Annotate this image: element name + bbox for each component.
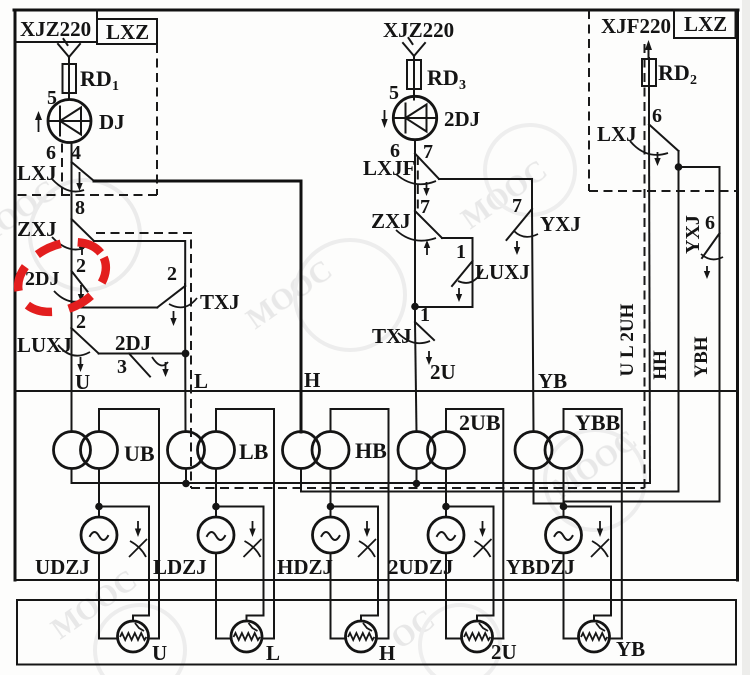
lamp L <box>231 621 280 665</box>
fuse RD1 <box>63 64 120 100</box>
wire HDZJ coil feed <box>330 469 332 518</box>
svg-text:LB: LB <box>239 439 269 464</box>
wire LXJF to YXJ branch <box>439 179 532 209</box>
wire YBDZJ coil feed <box>563 469 565 518</box>
wire RD2 to LXJ pivot <box>648 86 650 124</box>
right unit dashed enclosure <box>589 10 738 191</box>
contact LXJ left <box>17 161 94 192</box>
transformer UB <box>54 432 155 469</box>
contact HDZJ check <box>358 521 376 557</box>
svg-text:2U: 2U <box>430 360 456 384</box>
wire left spine to U terminal <box>71 328 73 432</box>
wire outer border right <box>736 10 739 580</box>
node junction HDZJ <box>327 503 335 511</box>
svg-text:LXJF: LXJF <box>363 156 416 180</box>
svg-text:6: 6 <box>705 212 715 234</box>
wire HDZJ to lamp left <box>331 553 346 639</box>
wire LB primary return <box>185 469 187 484</box>
svg-text:7: 7 <box>420 196 430 218</box>
transformer LB <box>168 432 269 469</box>
node junction L wire <box>182 350 190 358</box>
node XJZ220 left terminal box <box>15 10 97 42</box>
wire common return bus U L 2UH <box>72 469 651 484</box>
power feed tap XJZ220 left <box>58 39 80 64</box>
transformer YBB <box>515 410 621 469</box>
wire middle spine LXJF to ZXJ <box>414 154 416 212</box>
relay 2UDZJ <box>388 517 464 579</box>
svg-text:5: 5 <box>389 82 399 104</box>
wire UDZJ to lamp left <box>99 553 118 639</box>
svg-text:TXJ: TXJ <box>200 290 240 314</box>
contact LUXJ left <box>17 328 99 372</box>
wire LDZJ coil feed <box>215 469 217 518</box>
svg-text:3: 3 <box>117 356 127 378</box>
node junction LDZJ <box>212 503 220 511</box>
svg-text:U: U <box>75 370 90 394</box>
lamp YB <box>579 621 646 661</box>
power feed arrow XJF220 <box>648 48 650 58</box>
svg-text:2U: 2U <box>491 640 517 664</box>
svg-text:2DJ: 2DJ <box>115 331 151 355</box>
wire YBDZJ contact branch <box>564 507 612 622</box>
svg-text:2UB: 2UB <box>459 410 501 435</box>
wire DJ pin4 to LXJ pivot <box>71 143 73 163</box>
relay UDZJ <box>35 517 117 579</box>
arrow down beside 2DJ <box>384 110 386 121</box>
contact UDZJ check <box>129 521 147 557</box>
svg-text:8: 8 <box>75 197 85 219</box>
svg-text:XJZ220: XJZ220 <box>20 17 91 41</box>
wire ZXJ to LUXJ branch <box>442 238 473 261</box>
contact YXJ right <box>682 215 723 279</box>
lamp H <box>346 621 396 665</box>
wire 2DJ-3 contact bridge <box>99 353 186 355</box>
contact ZXJ middle <box>371 209 442 255</box>
svg-text:2UDZJ: 2UDZJ <box>388 555 453 579</box>
contact LDZJ check <box>244 521 262 557</box>
node junction UDZJ <box>95 503 103 511</box>
wire LUXJ branch return <box>415 261 473 307</box>
node bus junction L <box>182 480 190 488</box>
dashed route along middle spine <box>417 156 419 209</box>
wire left spine LXJ to ZXJ <box>71 162 73 220</box>
relay HDZJ <box>277 517 349 579</box>
wire outer border left <box>14 10 17 580</box>
svg-text:RD: RD <box>658 60 690 85</box>
svg-text:YBB: YBB <box>575 410 621 435</box>
svg-text:HDZJ: HDZJ <box>277 555 333 579</box>
dashed route across transformer section <box>191 487 645 489</box>
wire YBDZJ to lamp left <box>564 553 579 639</box>
wire 2U lamp feed <box>415 322 417 432</box>
relay DJ <box>48 100 125 143</box>
svg-text:U: U <box>152 641 167 665</box>
svg-text:RD: RD <box>80 66 112 91</box>
wire 2UDZJ to lamp left <box>446 553 462 639</box>
wire LDZJ contact branch <box>216 507 264 622</box>
wire 2UB primary return <box>416 469 418 484</box>
svg-text:LXJ: LXJ <box>17 161 57 185</box>
wire HH return column <box>649 124 650 483</box>
svg-text:YBH: YBH <box>691 336 712 377</box>
node junction YBDZJ <box>560 503 568 511</box>
wire YBH return column <box>564 233 720 506</box>
arrow up beside DJ <box>38 117 40 132</box>
contact TXJ left <box>157 286 239 326</box>
contact 2UDZJ check <box>474 521 492 557</box>
wire 2UDZJ coil feed <box>445 469 447 518</box>
svg-text:RD: RD <box>427 65 459 90</box>
svg-text:1: 1 <box>112 79 119 94</box>
wire 2DJ to LXJF pivot <box>414 140 416 154</box>
svg-text:U L 2UH: U L 2UH <box>617 303 638 376</box>
wire UDZJ contact branch <box>99 507 149 622</box>
fuse RD3 <box>407 60 466 100</box>
svg-text:YXJ: YXJ <box>540 212 581 236</box>
power feed tap XJZ220 middle <box>403 38 425 60</box>
contact YXJ middle <box>507 209 581 255</box>
wire section divider lower <box>15 579 738 581</box>
wire TXJ to left spine <box>72 307 158 309</box>
wire UDZJ coil feed <box>98 469 100 518</box>
relay YBDZJ <box>506 517 582 579</box>
contact ZXJ left <box>17 217 94 255</box>
dashed route right column <box>644 44 646 488</box>
svg-text:6: 6 <box>652 105 662 127</box>
wire LXJ tip to junction <box>678 151 680 167</box>
relay 2DJ <box>393 96 480 139</box>
svg-text:2: 2 <box>167 263 177 285</box>
node LXZ right box <box>674 10 736 38</box>
svg-text:3: 3 <box>459 78 466 93</box>
wire HB secondary top loop <box>331 409 389 639</box>
svg-text:2: 2 <box>76 311 86 333</box>
wire YBB secondary top loop <box>564 409 622 639</box>
wire UB secondary top loop <box>99 409 159 639</box>
svg-text:H: H <box>379 641 395 665</box>
svg-text:YBDZJ: YBDZJ <box>506 555 575 579</box>
svg-text:HH: HH <box>650 350 671 380</box>
wire lamp YB right side <box>610 638 622 640</box>
svg-text:7: 7 <box>512 195 522 217</box>
wire outer border top <box>14 9 738 12</box>
svg-text:LDZJ: LDZJ <box>153 555 207 579</box>
contact 2DJ left <box>25 268 88 302</box>
svg-text:YB: YB <box>538 369 567 393</box>
svg-text:H: H <box>304 368 320 392</box>
svg-text:LUXJ: LUXJ <box>17 333 72 357</box>
wire LXJ to H column <box>94 180 301 183</box>
wire left spine ZXJ to 2DJ <box>71 220 73 271</box>
left unit dashed enclosure <box>15 44 157 195</box>
wire L lamp feed <box>184 284 187 432</box>
contact LUXJ middle <box>452 260 530 302</box>
svg-text:UDZJ: UDZJ <box>35 555 90 579</box>
wire left spine 2DJ to LUXJ <box>71 271 73 328</box>
node junction right <box>675 163 683 171</box>
svg-text:XJF220: XJF220 <box>601 14 671 38</box>
highlight circle around 2DJ contact <box>7 229 117 326</box>
wire HH return horizontal <box>301 469 679 492</box>
svg-text:L: L <box>266 641 280 665</box>
svg-text:7: 7 <box>423 141 433 163</box>
wire ZXJ to TXJ branch <box>94 241 185 286</box>
wire section divider upper <box>15 390 738 392</box>
svg-text:1: 1 <box>456 241 466 263</box>
contact 2DJ 3 <box>115 331 169 378</box>
svg-text:2DJ: 2DJ <box>25 268 59 290</box>
svg-text:1: 1 <box>420 304 430 326</box>
wire LDZJ to lamp left <box>216 553 231 639</box>
svg-text:ZXJ: ZXJ <box>371 209 411 233</box>
wire YBB primary return jog <box>534 469 564 504</box>
fuse RD2 <box>642 58 697 92</box>
svg-text:YB: YB <box>616 637 645 661</box>
wire lamp H right side <box>377 638 389 640</box>
wire HDZJ contact branch <box>331 507 379 622</box>
contact LXJ right <box>597 122 679 166</box>
transformer HB <box>283 432 388 469</box>
svg-text:2: 2 <box>76 255 86 277</box>
svg-text:YXJ: YXJ <box>682 215 704 254</box>
wire LB secondary top loop <box>216 409 274 639</box>
wire YB lamp feed <box>532 209 534 432</box>
contact YBDZJ check <box>591 521 609 557</box>
wire lamp 2U right side <box>493 638 504 640</box>
svg-text:TXJ: TXJ <box>372 324 412 348</box>
svg-text:LXZ: LXZ <box>684 12 727 36</box>
contact TXJ middle <box>372 322 434 365</box>
wire middle spine ZXJ to TXJ <box>414 211 416 322</box>
node bus junction 2U <box>413 480 421 488</box>
svg-text:DJ: DJ <box>99 110 125 134</box>
wire DJ pin6 dashed drop <box>61 144 63 196</box>
wire lamp L right side <box>262 638 274 640</box>
wire 2UDZJ contact branch <box>446 507 494 622</box>
lamp U <box>118 621 168 665</box>
transformer 2UB <box>398 410 501 469</box>
svg-text:2: 2 <box>690 73 697 88</box>
dashed route ZXJ to right column <box>96 233 191 488</box>
wire lamp U right side <box>149 638 160 640</box>
lamp section box <box>17 600 736 665</box>
relay LDZJ <box>153 517 234 579</box>
lamp 2U <box>462 621 517 664</box>
wire junction to YXJ branch <box>679 167 720 233</box>
svg-text:ZXJ: ZXJ <box>17 217 57 241</box>
svg-text:2DJ: 2DJ <box>444 107 480 131</box>
wire 2UB secondary top loop <box>446 409 503 639</box>
svg-text:LUXJ: LUXJ <box>475 260 530 284</box>
wire H lamp feed <box>300 181 303 432</box>
node junction 2UDZJ <box>442 503 450 511</box>
svg-text:XJZ220: XJZ220 <box>383 18 454 42</box>
contact LXJF <box>363 154 439 197</box>
node junction middle spine <box>411 303 419 311</box>
svg-text:UB: UB <box>124 441 155 466</box>
node LXZ left box <box>97 19 157 44</box>
wire HB return column <box>678 167 680 492</box>
svg-text:HB: HB <box>355 438 387 463</box>
svg-text:L: L <box>194 369 208 393</box>
svg-text:LXZ: LXZ <box>106 20 149 44</box>
